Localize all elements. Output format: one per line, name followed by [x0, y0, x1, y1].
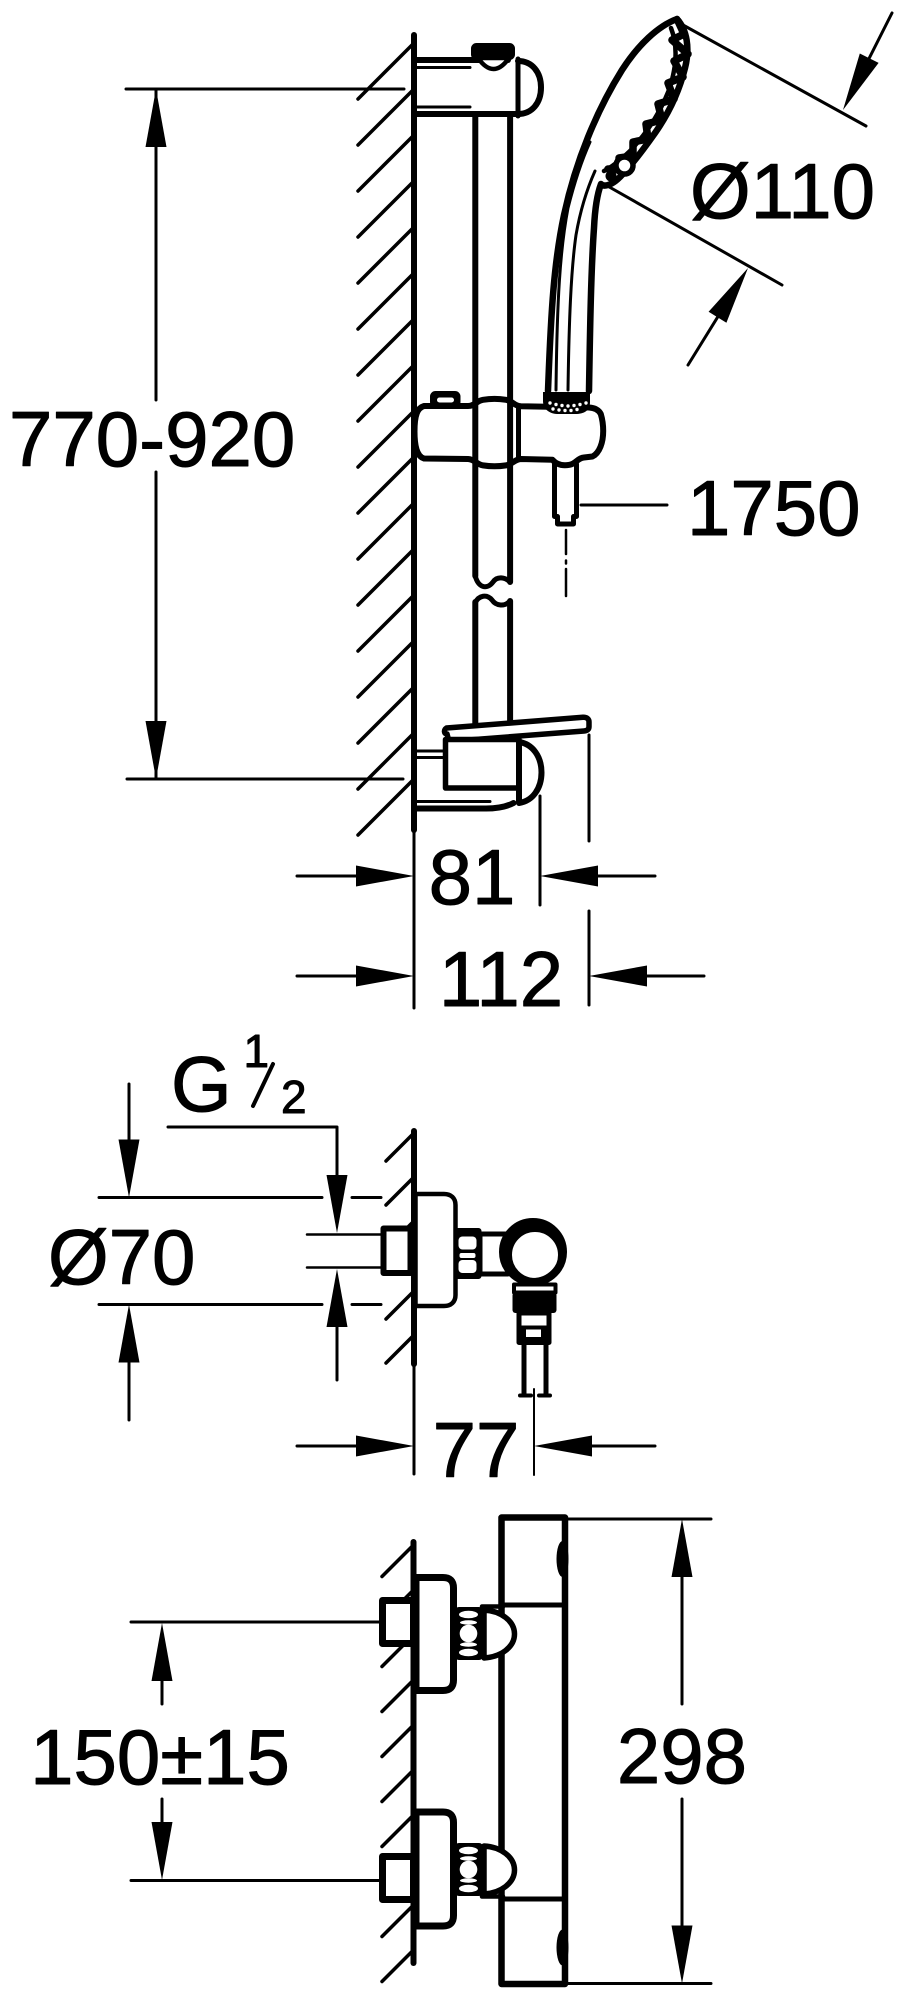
bottom wall bracket with soap dish [416, 717, 589, 808]
escutcheon Ø70 [416, 1194, 456, 1306]
wall (bottom view) [411, 1542, 417, 1963]
top wall bracket of rail [417, 45, 541, 117]
dimension 150±15 [152, 1623, 173, 1880]
svg-text:Ø70: Ø70 [48, 1213, 195, 1301]
valve knob [503, 1222, 563, 1282]
union nut at wall [384, 1229, 411, 1274]
dimension 770-920 [126, 89, 404, 779]
leader 1750 (hose length) [581, 504, 667, 507]
lower escutcheon [416, 1812, 454, 1926]
wall hatching (top) [358, 43, 414, 835]
150±15 extension lines [131, 1622, 381, 1881]
valve hex nut [456, 1229, 481, 1278]
rail tube [475, 114, 510, 726]
dimension G 1/2 leader [168, 1127, 348, 1380]
outlet body [519, 1313, 549, 1343]
wall (top view) [411, 35, 417, 830]
svg-text:2: 2 [281, 1071, 307, 1123]
wall hatching (bottom) [382, 1545, 414, 1982]
shower head spray face [601, 19, 688, 186]
svg-text:298: 298 [617, 1712, 747, 1800]
dimension Ø110 [604, 13, 892, 365]
dimension 112 [297, 966, 704, 987]
svg-text:770-920: 770-920 [9, 395, 295, 483]
svg-text:G: G [171, 1040, 232, 1128]
wall (middle view) [411, 1131, 417, 1474]
svg-text:150±15: 150±15 [30, 1713, 290, 1801]
nipple centerline [533, 1389, 535, 1475]
extension lines for 81 / 112 [414, 735, 589, 1008]
outlet collar [513, 1285, 557, 1314]
svg-text:81: 81 [429, 833, 516, 921]
upper escutcheon [416, 1578, 454, 1691]
lower supply elbow behind wall [383, 1857, 414, 1900]
holder division line [516, 406, 521, 458]
supply pipe G1/2 [307, 1235, 384, 1268]
svg-text:1: 1 [244, 1025, 270, 1077]
dimension 81 [297, 866, 655, 887]
upper dome cap [484, 1610, 515, 1658]
upper S-union nut [456, 1607, 503, 1660]
svg-text:112: 112 [439, 935, 563, 1023]
dimension Ø70 [99, 1084, 381, 1420]
svg-text:Ø110: Ø110 [690, 147, 875, 235]
hose nipple [520, 1340, 550, 1396]
valve neck [480, 1234, 508, 1274]
hose centerline [565, 530, 568, 596]
upper supply elbow behind wall [383, 1601, 414, 1644]
dimension 77 [297, 1436, 655, 1457]
slider holder on rail [415, 399, 604, 466]
thermostat body [502, 1518, 569, 1985]
lower S-union nut [456, 1844, 503, 1897]
hand shower handle [548, 19, 677, 391]
svg-text:1750: 1750 [687, 464, 861, 552]
svg-text:77: 77 [433, 1406, 520, 1494]
lower dome cap [484, 1846, 515, 1894]
hose below holder [555, 462, 577, 524]
wall hatching (middle) [386, 1133, 414, 1363]
holder lock knob [432, 393, 460, 407]
handle hose-nut in holder [543, 392, 590, 414]
dimension 298 [568, 1519, 711, 1984]
